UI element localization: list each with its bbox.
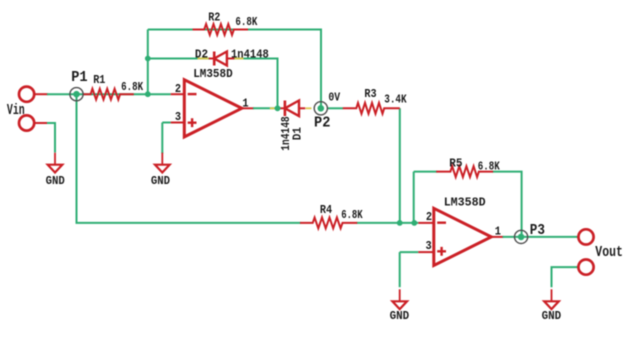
svg-text:GND: GND — [390, 309, 410, 323]
svg-text:2: 2 — [426, 210, 432, 224]
svg-text:P3: P3 — [530, 223, 545, 239]
svg-text:D2: D2 — [195, 47, 208, 61]
svg-text:P2: P2 — [314, 116, 330, 132]
svg-text:P1: P1 — [71, 70, 88, 86]
svg-text:6.8K: 6.8K — [341, 208, 363, 222]
svg-text:2: 2 — [175, 82, 181, 96]
svg-text:GND: GND — [542, 309, 562, 323]
svg-text:R3: R3 — [364, 87, 376, 101]
svg-text:D1: D1 — [291, 127, 305, 140]
svg-text:1: 1 — [242, 97, 248, 111]
svg-text:3: 3 — [175, 110, 181, 124]
svg-text:LM358D: LM358D — [444, 196, 486, 210]
svg-text:R2: R2 — [208, 11, 220, 25]
svg-text:R4: R4 — [320, 203, 332, 217]
svg-text:3.4K: 3.4K — [384, 93, 407, 107]
svg-text:6.8K: 6.8K — [235, 15, 258, 29]
svg-text:LM358D: LM358D — [193, 67, 233, 81]
svg-text:Vin: Vin — [7, 103, 25, 119]
svg-text:1n4148: 1n4148 — [231, 47, 269, 61]
svg-text:0V: 0V — [328, 91, 340, 105]
svg-text:3: 3 — [426, 239, 432, 253]
svg-text:GND: GND — [151, 174, 170, 188]
svg-text:Vout: Vout — [595, 245, 623, 261]
svg-text:6.8K: 6.8K — [121, 80, 144, 94]
svg-text:GND: GND — [46, 174, 65, 188]
svg-text:R1: R1 — [93, 73, 105, 87]
svg-text:R5: R5 — [449, 156, 462, 170]
svg-text:6.8K: 6.8K — [478, 160, 501, 174]
svg-text:1: 1 — [495, 224, 501, 238]
